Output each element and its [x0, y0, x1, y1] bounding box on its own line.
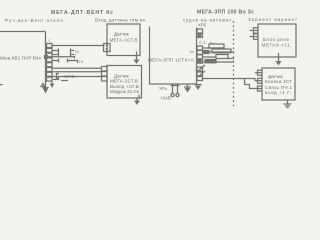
svg-text:МЕГА-1СТ.В: МЕГА-1СТ.В [110, 38, 138, 43]
svg-text:Мша.КВ1 ПАР В4х: Мша.КВ1 ПАР В4х [0, 56, 42, 61]
svg-text:Зариант вариант: Зариант вариант [248, 17, 297, 22]
wire arrow box3 down [276, 57, 282, 66]
svg-text:Датчик: Датчик [114, 32, 130, 37]
pin tick box2 bottom [138, 95, 140, 98]
wire bus to box4 t2 [203, 79, 256, 81]
label Gn2 [79, 59, 83, 64]
wire branch to t3 [245, 79, 256, 89]
terminal box4 t1 [255, 70, 262, 75]
svg-text:+2АВ: +2АВ [160, 96, 171, 101]
label right line2a [183, 18, 231, 23]
module box4 [262, 68, 295, 100]
wire arrow box1 down [134, 56, 140, 65]
svg-text:Гы: Гы [210, 41, 215, 46]
wire hook right of pins [53, 77, 59, 80]
wire pin3 contact pair [52, 53, 74, 57]
pin tick box3 bottom [278, 53, 280, 57]
label box4 line2 [265, 79, 293, 84]
svg-text:МЕГА-ЗПП 1СТХ+А: МЕГА-ЗПП 1СТХ+А [148, 58, 195, 64]
wire bus XP1 [45, 32, 47, 88]
label box2 line3 [110, 84, 139, 89]
ground box4 [284, 100, 292, 108]
label +SL V [57, 74, 75, 80]
wire arrow box2 down [134, 98, 140, 105]
label box3 line1 [263, 37, 289, 42]
arrow down pair 2 [195, 84, 202, 90]
label Gn1 [75, 49, 79, 54]
wire pin6 to box2 pin1 [52, 67, 101, 69]
arrow down pair 1 [184, 84, 191, 93]
wire long vertical [150, 27, 197, 85]
label box2 line1 [114, 74, 130, 79]
svg-text:Вход датчика тем.вн.: Вход датчика тем.вн. [95, 18, 147, 23]
svg-text:МЕГА-2СТ.В: МЕГА-2СТ.В [110, 79, 138, 84]
svg-text:Кнопка 2СГ: Кнопка 2СГ [265, 79, 293, 84]
svg-text:МЕГА-ЗПП 100 Во Зс: МЕГА-ЗПП 100 Во Зс [197, 10, 254, 16]
label box1 line2 [110, 38, 138, 43]
node arrow bus down [42, 87, 49, 94]
label ruchnoe vkl [5, 18, 65, 23]
wire row1 with component [203, 44, 225, 48]
label C1 [199, 40, 206, 45]
label box2 line2 [110, 79, 138, 84]
module box1 [107, 24, 140, 56]
svg-text:+в: +в [189, 49, 193, 54]
label box4 line1 [268, 74, 284, 79]
label +v [189, 49, 193, 54]
node mark small c [49, 39, 51, 43]
label box1 line1 [114, 32, 130, 37]
svg-text:вход +1 Г.: вход +1 Г. [265, 90, 291, 95]
module box2 [107, 66, 142, 99]
node dot left edge [0, 84, 3, 85]
connector XP1 pins [45, 44, 53, 82]
module box3 [258, 24, 296, 57]
svg-text:с: с [49, 39, 51, 43]
node mark small triangle [41, 84, 45, 87]
pin tick box1 bottom [136, 52, 138, 56]
svg-text:судов на автомат: судов на автомат [183, 18, 231, 23]
wire stub mid [47, 57, 75, 59]
label box4 line4 [265, 90, 291, 95]
label MEGA ZPP center [148, 58, 195, 64]
terminal box3 t1 [250, 28, 259, 33]
dashed boundary line [233, 21, 235, 108]
label MSHA KV left [0, 56, 42, 61]
wire pin7 to box2 pin2 [52, 71, 101, 73]
svg-text:МЕГА-ДПТ-ВЕНТ Кс: МЕГА-ДПТ-ВЕНТ Кс [51, 10, 113, 16]
label box2 line4 [110, 89, 140, 94]
title right MEGA-ZPP 100 [197, 10, 254, 16]
svg-text:Гн: Гн [79, 59, 83, 64]
wire pin1 to box1 [52, 45, 103, 47]
wire left input [0, 31, 46, 33]
wire pin8 to box2 pin3 [52, 76, 101, 78]
svg-text:Модуль 31 Св: Модуль 31 Св [110, 89, 140, 94]
svg-text:Блок реле: Блок реле [263, 37, 289, 42]
label G2 [75, 53, 78, 58]
label above box1 [95, 18, 147, 23]
wire row4 with component [203, 60, 235, 63]
svg-text:МЕГАХ-т11.: МЕГАХ-т11. [262, 43, 292, 48]
label +24V [160, 96, 171, 101]
test point stubs [171, 84, 180, 97]
label right line2b [248, 17, 297, 22]
svg-text:С.1: С.1 [199, 40, 206, 45]
svg-text:ХР5: ХР5 [198, 23, 207, 28]
terminal box3 t2 [250, 34, 259, 39]
switch marks near bus [199, 65, 205, 76]
terminal box4 t3 [255, 86, 262, 91]
svg-text:ХРь: ХРь [159, 86, 168, 91]
wire bus XP5 [196, 28, 198, 85]
label box3 line2 [262, 43, 292, 48]
terminal box2 pins left [102, 67, 108, 82]
wire pin4 contact pair [52, 59, 78, 64]
wire row3 with component [203, 55, 235, 59]
connector XP5 pins [197, 29, 203, 81]
node arrow second [50, 81, 55, 88]
title left: MEGA-DPT-VENT label [51, 10, 113, 16]
label box4 line3 [265, 85, 292, 90]
wire row2 with component [203, 49, 235, 54]
label XP5 [198, 23, 207, 28]
svg-text:Руч.вкл-Вент.отопл.: Руч.вкл-Вент.отопл. [5, 18, 65, 23]
label XP6 below [159, 86, 168, 91]
terminal box4 t2 [255, 78, 262, 83]
wire pin2 contact pair [52, 49, 74, 53]
label Gy [210, 41, 215, 46]
terminal box1 left [104, 44, 111, 52]
